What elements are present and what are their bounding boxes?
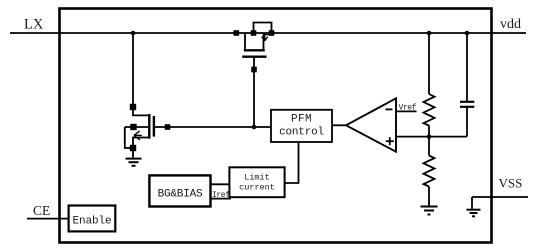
chip boundary box: [60, 9, 492, 243]
wire BG&BIAS to Limit current: [211, 183, 230, 185]
transistor M2 source square: [130, 145, 136, 151]
svg-text:PFM: PFM: [291, 113, 312, 125]
ground at R2: [421, 206, 438, 208]
transistor M2 gate bar: [153, 116, 155, 137]
ground at M2 source: [126, 158, 142, 160]
resistor R2 lead top: [428, 137, 430, 156]
svg-text:VSS: VSS: [499, 176, 523, 191]
transistor M1 gate lead square: [251, 67, 257, 73]
transistor M2 bulk loop: [125, 127, 133, 148]
resistor R2: [424, 156, 435, 187]
svg-text:Limit: Limit: [244, 172, 270, 182]
svg-text:BG&BIAS: BG&BIAS: [158, 188, 203, 200]
plus sign: [386, 140, 394, 142]
net label Vref stub: [396, 110, 417, 112]
resistor R1: [424, 94, 435, 126]
wire junction square M1 bulk-left: [251, 30, 257, 36]
block PFM control: [271, 110, 332, 142]
capacitor C1 lead bottom: [466, 107, 468, 137]
node LX-drain junction: [131, 31, 136, 36]
capacitor C1 lead top: [466, 33, 468, 102]
block Enable: [69, 206, 116, 232]
block Limit current: [229, 167, 284, 197]
svg-text:control: control: [279, 127, 324, 139]
node divider junction: [427, 134, 432, 139]
transistor M2 (NMOS left) drain lead: [133, 33, 149, 115]
node M1 gate / M2 gate junction: [252, 125, 257, 130]
node R1 top on rail: [427, 31, 432, 36]
svg-text:vdd: vdd: [500, 17, 521, 32]
block BG&BIAS: [149, 175, 210, 206]
wire junction square M1 bulk-right: [269, 30, 275, 36]
wire comparator output to PFM: [332, 124, 346, 126]
wire Limit current to PFM control: [285, 142, 299, 183]
capacitor C1: [460, 101, 474, 103]
svg-text:LX: LX: [24, 17, 44, 33]
transistor M1 drain stub: [263, 33, 265, 50]
wire CE to Enable: [27, 218, 69, 220]
wire M2 gate to PFM control: [154, 126, 271, 128]
node C1 top on rail: [465, 31, 470, 36]
wire junction square left of M1: [234, 30, 240, 36]
transistor M1 (PMOS top) source stub: [244, 33, 246, 50]
resistor R2 lead bottom: [428, 187, 430, 207]
svg-text:CE: CE: [33, 203, 50, 218]
transistor M2 bulk lead: [125, 126, 148, 128]
svg-text:current: current: [239, 182, 275, 192]
resistor R1 lead top: [428, 33, 430, 94]
op-amp U1 comparator: [346, 98, 396, 151]
transistor M1 bulk loop: [254, 23, 272, 34]
transistor M2 bulk arrow: [134, 134, 142, 136]
ground at VSS: [467, 209, 481, 211]
wire LX-vdd rail: [10, 32, 526, 34]
svg-text:Enable: Enable: [72, 215, 111, 227]
transistor M2 channel bar: [148, 114, 150, 139]
resistor R1 lead bottom: [428, 126, 430, 137]
minus sign: [386, 108, 393, 110]
wire VSS: [472, 196, 528, 198]
transistor M1 channel bar: [244, 49, 265, 51]
wire plus input to divider node: [396, 136, 467, 138]
transistor M1 gate lead: [253, 57, 255, 127]
transistor M1 bulk arrow: [265, 35, 271, 41]
transistor M2 source lead: [133, 138, 149, 158]
transistor M1 gate bar: [242, 56, 266, 58]
VSS ground stub: [471, 197, 473, 209]
transistor M2 bulk square: [130, 124, 136, 130]
transistor M2 drain square: [130, 104, 136, 110]
gate wire square: [165, 124, 171, 130]
svg-text:Vref: Vref: [399, 103, 417, 112]
